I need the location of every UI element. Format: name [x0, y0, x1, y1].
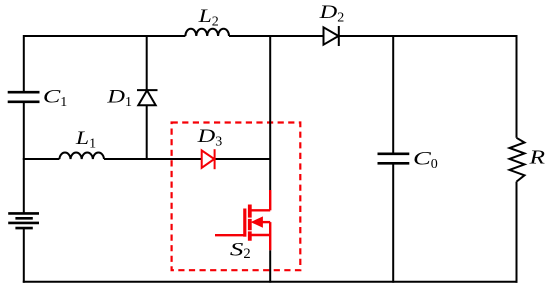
inductor L2: [185, 29, 229, 36]
right edge wire: [516, 35, 518, 283]
capacitor C1: [8, 92, 40, 102]
battery B: [8, 213, 39, 228]
svg-text:C1: C1: [43, 86, 67, 110]
svg-text:S2: S2: [230, 239, 251, 262]
svg-text:R: R: [528, 147, 545, 169]
left vertical wire: [23, 35, 25, 283]
S2 branch vertical (black top): [269, 35, 271, 190]
diode D3 (red): [202, 149, 215, 169]
inductor L1: [59, 152, 104, 159]
bottom wire: [23, 281, 518, 283]
S2 branch vertical (black bottom): [269, 250, 271, 283]
svg-text:D3: D3: [196, 126, 222, 150]
middle wire: [23, 158, 271, 160]
diode D1: [137, 90, 158, 105]
svg-text:C0: C0: [413, 148, 438, 172]
capacitor C0: [378, 154, 410, 164]
svg-text:D1: D1: [106, 87, 132, 111]
diode D2: [324, 26, 339, 46]
svg-text:L1: L1: [75, 128, 96, 152]
D1 branch wire: [146, 35, 148, 160]
red dashed box: [172, 123, 301, 271]
resistor R: [510, 138, 525, 182]
svg-text:D2: D2: [318, 2, 344, 26]
svg-text:L2: L2: [197, 6, 218, 30]
top wire: [24, 35, 517, 37]
C0 branch wire: [392, 35, 394, 283]
MOSFET S2 (red): [215, 190, 270, 250]
